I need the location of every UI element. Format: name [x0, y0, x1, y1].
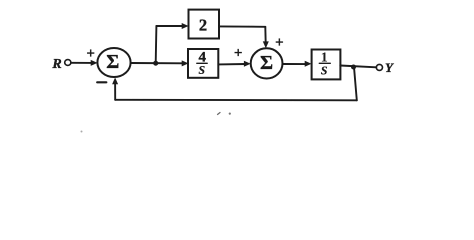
svg-text:R: R [51, 57, 61, 72]
svg-text:Σ: Σ [260, 52, 273, 74]
svg-text:s: s [198, 59, 206, 78]
svg-text:+: + [234, 46, 243, 62]
svg-text:s: s [320, 60, 328, 79]
svg-text:+: + [86, 46, 95, 62]
svg-text:+: + [275, 35, 284, 51]
svg-text:2: 2 [199, 16, 207, 35]
svg-text:Y: Y [385, 60, 394, 75]
svg-text:Σ: Σ [106, 51, 119, 73]
